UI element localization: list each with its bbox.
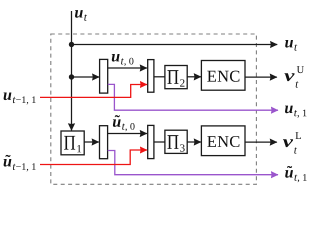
encoder ENC lower [201, 126, 245, 156]
wire: u_t,0 from S1 to combiner C1 [108, 67, 147, 69]
label u_t right output [285, 40, 297, 51]
wire: red feedback u_t-1,1 into combiner C1 [40, 85, 147, 98]
permutation box Pi_3 [165, 130, 187, 153]
wire: branch into splitter S1 [72, 76, 100, 78]
encoder ENC upper [201, 61, 245, 91]
node: junction dot upper [69, 42, 74, 47]
wire: C1 to Pi_2 [154, 76, 165, 78]
wire: u~_t,0 from S2 to combiner C2 [108, 133, 147, 135]
wire: lower ENC output to v_t^L [245, 141, 277, 143]
wire: Pi_1 to splitter S2 [84, 141, 99, 143]
wire: purple u_t,1 from S1 to right output [108, 84, 278, 110]
label u_t,1 right output [285, 106, 306, 118]
wire: red feedback u~_t-1,1 into combiner C2 [40, 150, 147, 165]
permutation box Pi_2 [165, 66, 187, 89]
combiner block C2 [148, 125, 154, 158]
label u_t-1,1 left input [4, 93, 36, 105]
label u~_t,1 right output [285, 166, 306, 182]
wire: u_t vertical input line into Pi_1 [71, 11, 73, 130]
label v_t^U right output [284, 66, 304, 87]
label u_t top input [75, 10, 87, 21]
wire: purple u~_t,1 from S2 to right output [108, 151, 278, 175]
wire: C2 to Pi_3 [154, 141, 165, 143]
wire: upper ENC output to v_t^U [245, 76, 277, 78]
wire: u_t pass-through to right output [72, 44, 278, 46]
permutation box Pi_1 [61, 131, 84, 155]
combiner block C1 [148, 60, 154, 93]
dashed module boundary box [51, 34, 257, 184]
label u~_t-1,1 left input [4, 155, 36, 172]
label v_t^L right output [283, 132, 301, 153]
wire: Pi_2 to upper ENC [187, 76, 201, 78]
label u_t,0 [112, 54, 134, 66]
wire: Pi_3 to lower ENC [187, 141, 201, 143]
splitter block S1 [100, 59, 108, 93]
label u~_t,0 [113, 115, 135, 131]
splitter block S2 [100, 126, 108, 159]
node: junction dot lower [69, 74, 74, 79]
